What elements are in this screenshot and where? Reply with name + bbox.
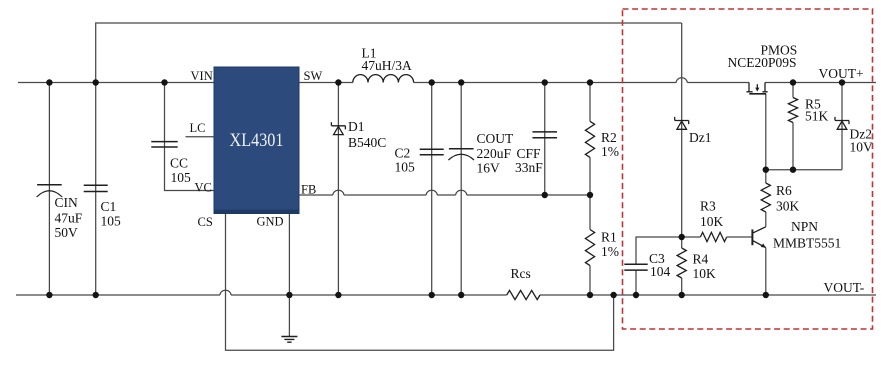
svg-text:47uH/3A: 47uH/3A <box>362 58 413 73</box>
svg-text:105: 105 <box>101 214 122 229</box>
node VIN CC junction <box>161 79 167 85</box>
wire CC branch from VIN rail to VC pin <box>165 83 215 191</box>
svg-text:30K: 30K <box>776 199 800 214</box>
svg-text:Rcs: Rcs <box>511 266 531 281</box>
svg-text:COUT: COUT <box>477 131 515 146</box>
wire GND pin to ground symbol <box>288 214 290 337</box>
wire C2 branch vertical <box>431 83 433 296</box>
wire FB rail with hops at D1, C2, COUT branches <box>299 194 590 196</box>
svg-text:MMBT5551: MMBT5551 <box>773 236 841 251</box>
wire Dz2 branch vertical <box>841 83 843 170</box>
node gate R5 junction <box>790 167 796 173</box>
node VOUT R2 junction <box>587 79 593 85</box>
svg-text:SW: SW <box>304 69 323 83</box>
svg-text:33nF: 33nF <box>515 160 543 175</box>
svg-text:16V: 16V <box>477 160 501 175</box>
svg-text:51K: 51K <box>805 109 829 124</box>
svg-text:CFF: CFF <box>517 146 542 161</box>
svg-text:Dz1: Dz1 <box>689 130 712 145</box>
wire C3 bottom to VOUT- bus <box>635 270 637 295</box>
wire CS pin sense path to Rcs right node <box>226 214 614 351</box>
diode D1 B540C <box>331 122 345 134</box>
op-amp U1 XL4301 regulator IC body <box>214 67 299 214</box>
svg-text:LC: LC <box>190 121 206 135</box>
wire R5 branch vertical <box>792 83 794 170</box>
node VIN C1 / top-rail junction <box>93 79 99 85</box>
node FB CFF junction <box>542 192 548 198</box>
resistor R1 1% <box>585 230 594 266</box>
wire hop on SW rail over Dz1 branch <box>676 78 687 83</box>
svg-text:CIN: CIN <box>55 195 79 210</box>
svg-text:50V: 50V <box>55 225 79 240</box>
node ground COUT junction <box>458 292 464 298</box>
svg-text:CS: CS <box>198 215 213 229</box>
svg-text:FB: FB <box>301 183 316 197</box>
node Rcs left R1 junction <box>587 292 593 298</box>
node ground C2 junction <box>429 292 435 298</box>
node ground GND-pin junction <box>286 292 292 298</box>
svg-text:105: 105 <box>395 160 416 175</box>
capacitor CFF 33nF <box>532 132 557 138</box>
node VOUT+ Dz2 junction <box>839 79 845 85</box>
svg-text:VOUT-: VOUT- <box>824 280 865 295</box>
wire CIN branch vertical <box>48 83 50 296</box>
svg-text:104: 104 <box>650 264 671 279</box>
node VIN bulk cap junction <box>46 79 52 85</box>
svg-text:10K: 10K <box>693 266 717 281</box>
capacitor CIN 47uF 50V (electrolytic) <box>37 185 63 197</box>
svg-text:D1: D1 <box>348 119 365 134</box>
red dashed protection-module boundary box <box>623 9 873 329</box>
svg-text:1%: 1% <box>601 144 619 159</box>
wire SW output rail with hop at x=681.7 <box>299 82 876 84</box>
resistor R2 1% <box>585 121 594 157</box>
resistor R3 10K <box>700 232 726 241</box>
svg-text:1%: 1% <box>601 244 619 259</box>
node SW D1 junction <box>335 79 341 85</box>
zener diode Dz2 <box>835 117 849 129</box>
svg-text:VC: VC <box>195 181 212 195</box>
wire NPN collector to R6 <box>765 170 767 227</box>
resistor R6 30K <box>761 183 770 212</box>
svg-text:10V: 10V <box>850 140 874 155</box>
wire CFF branch vertical <box>544 83 546 196</box>
svg-text:47uF: 47uF <box>55 210 83 225</box>
svg-text:R2: R2 <box>601 130 617 145</box>
svg-text:B540C: B540C <box>348 135 386 150</box>
svg-text:C1: C1 <box>101 199 117 214</box>
inductor L1 <box>353 75 414 83</box>
node gate R6 junction <box>763 167 769 173</box>
transistor PMOS NCE20P09S <box>746 83 767 94</box>
zener diode Dz1 <box>675 117 689 129</box>
svg-text:C2: C2 <box>395 146 411 161</box>
svg-text:VIN: VIN <box>191 69 213 83</box>
svg-text:10K: 10K <box>700 214 724 229</box>
wire top feedback rail from input node up and across to Dz1 branch <box>96 23 682 83</box>
svg-text:R4: R4 <box>693 252 709 267</box>
resistor R5 51K <box>788 98 797 123</box>
node Rcs right CS sense junction <box>610 292 616 298</box>
capacitor CC 105 <box>151 142 177 147</box>
wire hop on ground bus over CS branch <box>220 290 231 295</box>
wire C3 to R3 to NPN base <box>636 237 752 264</box>
svg-text:R1: R1 <box>601 230 617 245</box>
wire D1 branch vertical SW to ground bus <box>337 83 339 296</box>
node ground D1 junction <box>335 292 341 298</box>
capacitor C2 105 <box>420 149 444 155</box>
svg-text:NCE20P09S: NCE20P09S <box>728 55 797 70</box>
capacitor C3 104 <box>624 264 647 270</box>
node Dz1 R3 R4 junction <box>679 234 685 240</box>
node VOUT C2 junction <box>429 79 435 85</box>
resistor Rcs (current sense) <box>507 290 540 299</box>
node FB divider junction <box>587 192 593 198</box>
resistor R4 10K <box>677 248 686 278</box>
node ground C1 junction <box>93 292 99 298</box>
capacitor C1 105 <box>84 185 108 191</box>
node ground CIN junction <box>46 292 52 298</box>
wire hop on FB rail over C2 branch <box>426 190 437 195</box>
svg-text:R3: R3 <box>700 199 716 214</box>
svg-text:NPN: NPN <box>791 219 818 234</box>
wire R2 R1 divider vertical <box>589 83 591 296</box>
node VOUT- R4 junction <box>679 292 685 298</box>
node VOUT CFF junction <box>542 79 548 85</box>
svg-text:XL4301: XL4301 <box>230 130 284 151</box>
node VOUT- emitter junction <box>763 292 769 298</box>
capacitor COUT 220uF 16V (electrolytic) <box>448 149 474 160</box>
wire hop on FB rail over D1 branch <box>333 190 344 195</box>
wire LC pin stub <box>186 136 215 138</box>
wire NPN emitter to VOUT- bus <box>765 248 767 295</box>
node VOUT+ R5 junction <box>790 79 796 85</box>
wire COUT branch vertical <box>460 83 462 296</box>
svg-text:CC: CC <box>170 156 188 171</box>
wire PMOS gate drive rail <box>766 94 842 170</box>
svg-text:R6: R6 <box>776 183 792 198</box>
svg-text:GND: GND <box>257 215 284 229</box>
wire ground bus with hop at CS branch and gap for Rcs <box>16 294 876 296</box>
wire Dz1 R4 branch vertical <box>681 23 683 295</box>
svg-text:VOUT+: VOUT+ <box>819 66 864 81</box>
wire hop on FB rail over COUT branch <box>456 190 467 195</box>
svg-text:105: 105 <box>171 170 192 185</box>
node VOUT- C3 junction <box>633 292 639 298</box>
wire C1 branch vertical <box>95 83 97 296</box>
node VOUT COUT junction <box>458 79 464 85</box>
transistor Q1 NPN MMBT5551 <box>752 227 766 248</box>
ground symbol <box>281 337 297 343</box>
svg-text:220uF: 220uF <box>477 146 512 161</box>
wire main input rail VIN <box>18 82 214 84</box>
